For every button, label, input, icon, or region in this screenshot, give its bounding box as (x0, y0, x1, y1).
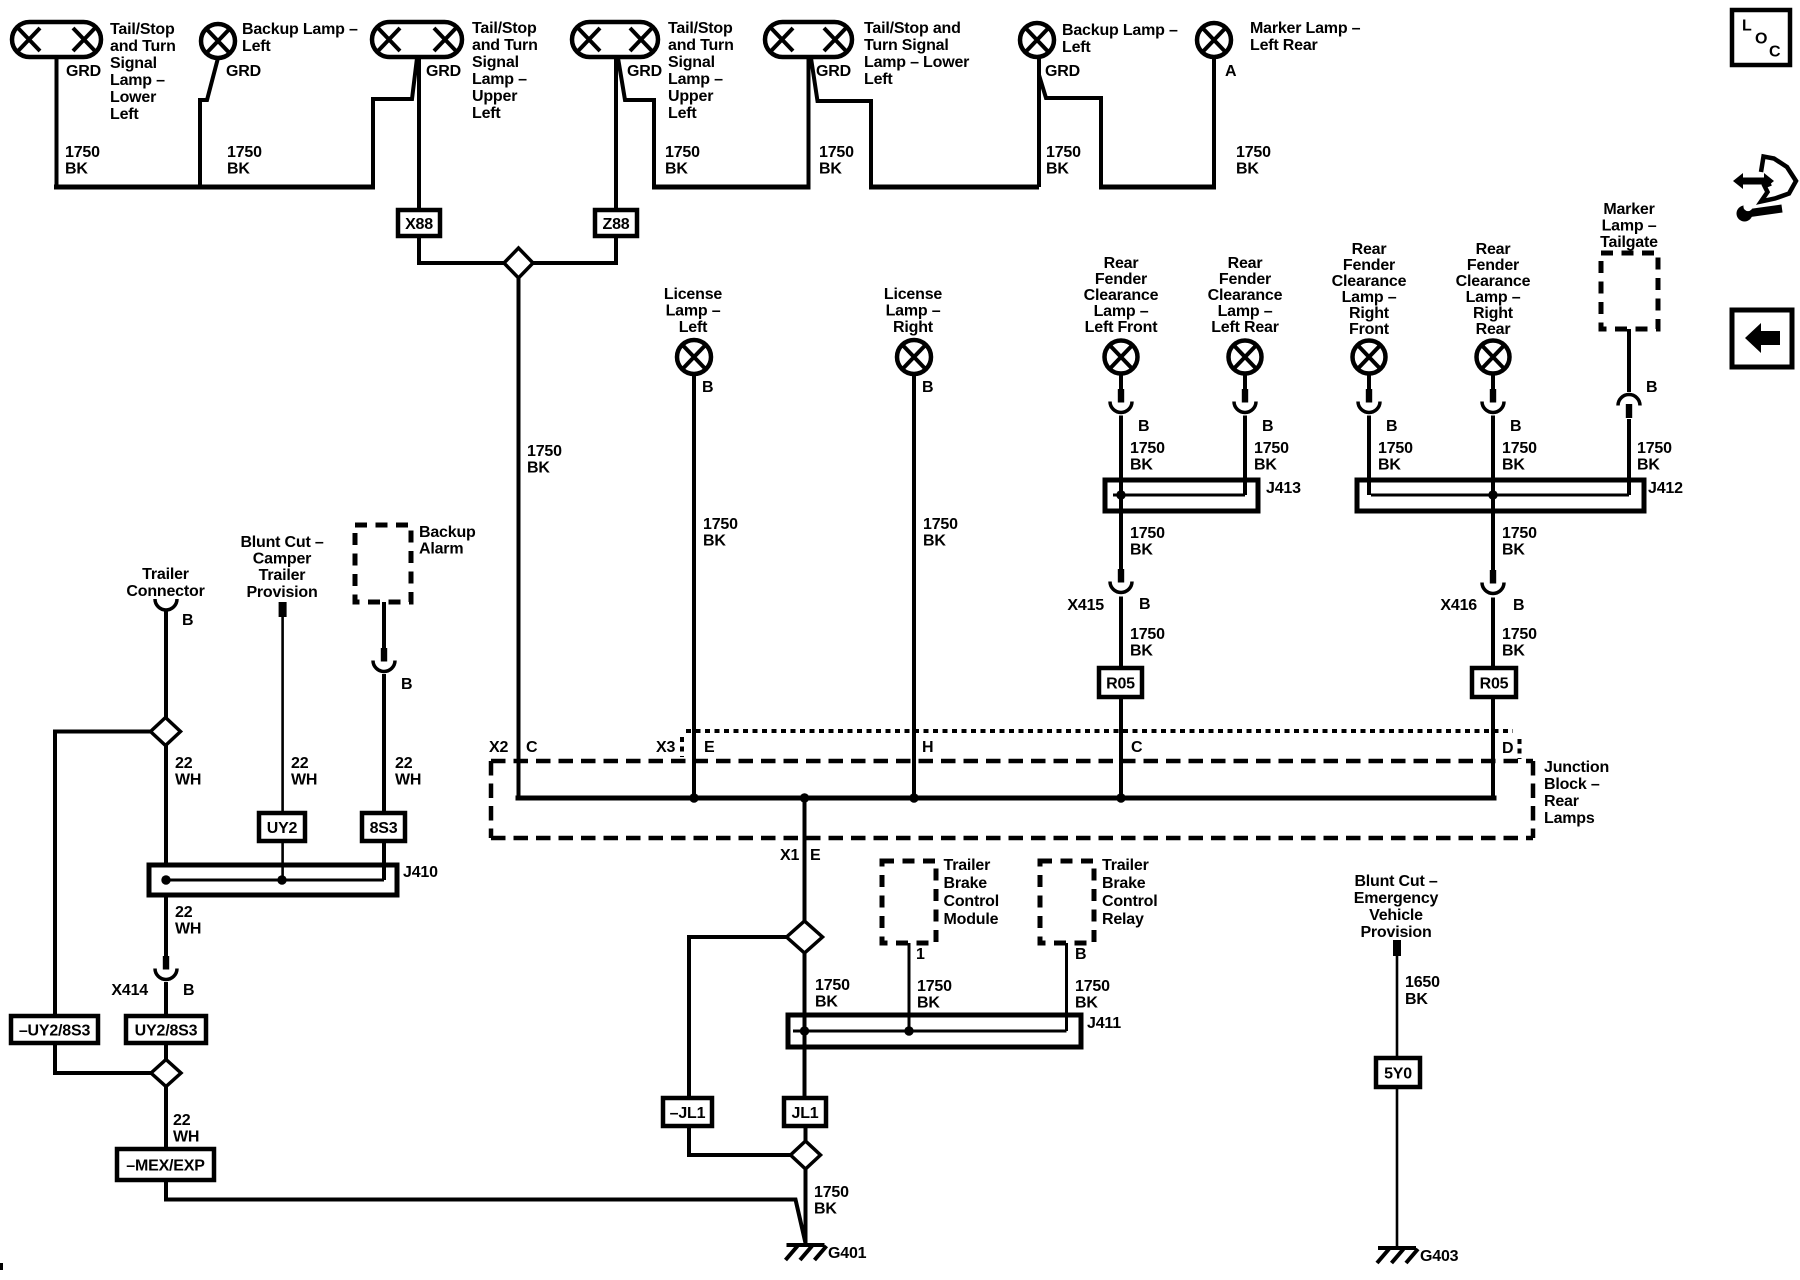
wire lamp3 GRD drop (373, 58, 417, 187)
svg-text:Lamp – Lower: Lamp – Lower (864, 54, 969, 71)
splice/option box 8S3 (362, 813, 405, 841)
svg-text:Rear: Rear (1352, 241, 1387, 258)
svg-text:BK: BK (923, 533, 946, 550)
wire diamond A to junction block X2-C (517, 278, 521, 798)
svg-text:and Turn: and Turn (110, 38, 176, 55)
wire junction block X1-E drop (803, 798, 807, 921)
wire clearance LR to J413 (1243, 416, 1247, 496)
svg-text:Trailer: Trailer (1102, 857, 1149, 874)
svg-text:G403: G403 (1420, 1248, 1459, 1265)
svg-text:WH: WH (175, 772, 201, 789)
wire ground run lamp6-lamp7 (1099, 185, 1216, 190)
svg-text:R05: R05 (1106, 676, 1135, 693)
svg-text:E: E (810, 847, 821, 864)
wire -JL1 to diamond C (689, 1126, 791, 1155)
svg-text:1: 1 (916, 946, 925, 963)
splice/option box Z88 (595, 210, 637, 236)
svg-text:1750: 1750 (1075, 978, 1110, 995)
svg-text:Rear: Rear (1228, 255, 1263, 272)
in-line connector backup alarm conn B (381, 648, 387, 662)
svg-text:A: A (1225, 63, 1237, 80)
svg-text:5Y0: 5Y0 (1384, 1066, 1412, 1083)
svg-text:License: License (664, 286, 722, 303)
svg-text:Tail/Stop and: Tail/Stop and (864, 20, 961, 37)
wire JL1 to diamond C (804, 1126, 808, 1141)
wire clearance RF to J412 (1367, 416, 1371, 496)
svg-text:Left Rear: Left Rear (1250, 37, 1318, 54)
svg-text:Left: Left (472, 105, 501, 122)
svg-text:Lamp –: Lamp – (1342, 289, 1397, 306)
wire lamp7 drop (1212, 56, 1216, 187)
svg-text:L: L (1742, 18, 1752, 35)
wire backup alarm conn to 8S3 (382, 674, 386, 813)
svg-text:Blunt Cut –: Blunt Cut – (240, 534, 323, 551)
svg-text:GRD: GRD (66, 63, 101, 80)
svg-text:Alarm: Alarm (419, 541, 463, 558)
svg-text:Tail/Stop: Tail/Stop (110, 21, 175, 38)
svg-text:Lamp –: Lamp – (472, 71, 527, 88)
icon double-arrow with wrench (1733, 173, 1774, 189)
svg-text:Upper: Upper (472, 88, 517, 105)
lamp Rear Fender Clearance Lamp x=1493 (circled-X) (1477, 341, 1510, 374)
svg-text:E: E (704, 739, 715, 756)
wire diamond C to G401 (804, 1169, 808, 1245)
svg-text:BK: BK (1502, 542, 1525, 559)
svg-text:Signal: Signal (110, 55, 157, 72)
wire lamp6 GRD branch (1039, 75, 1101, 187)
svg-text:Tail/Stop: Tail/Stop (472, 20, 537, 37)
splice/option box UY2 (259, 813, 305, 841)
ground G401 (787, 1243, 825, 1247)
wire Z88 to diamond (531, 236, 616, 263)
svg-text:Z88: Z88 (603, 216, 630, 233)
svg-text:Left: Left (1062, 39, 1091, 56)
svg-text:Left: Left (110, 106, 139, 123)
svg-text:Lamp –: Lamp – (886, 303, 941, 320)
svg-text:8S3: 8S3 (370, 820, 398, 837)
svg-text:Connector: Connector (126, 583, 204, 600)
svg-text:BK: BK (703, 533, 726, 550)
svg-text:Backup: Backup (419, 524, 476, 541)
svg-text:WH: WH (175, 921, 201, 938)
svg-text:Control: Control (944, 893, 999, 910)
svg-text:WH: WH (173, 1129, 199, 1146)
svg-text:Relay: Relay (1102, 911, 1144, 928)
svg-text:1750: 1750 (527, 443, 562, 460)
wire UY2/8S3 to diamond T2 (164, 1043, 168, 1060)
svg-text:Backup Lamp –: Backup Lamp – (242, 21, 358, 38)
svg-text:BK: BK (1378, 457, 1401, 474)
svg-text:Rear: Rear (1476, 241, 1511, 258)
svg-text:1750: 1750 (923, 516, 958, 533)
svg-text:B: B (1075, 946, 1086, 963)
wire diamond T1 to J410 (164, 746, 168, 867)
svg-text:B: B (1386, 418, 1397, 435)
junction block connector row dotted line X3 (686, 729, 1513, 733)
blunt cut stub (camper) (279, 602, 287, 617)
svg-text:Backup Lamp –: Backup Lamp – (1062, 22, 1178, 39)
wire tailgate lamp drop (1627, 329, 1631, 392)
svg-text:1750: 1750 (1254, 440, 1289, 457)
svg-text:Clearance: Clearance (1456, 273, 1531, 290)
svg-text:B: B (1139, 596, 1150, 613)
svg-text:1750: 1750 (1130, 626, 1165, 643)
svg-text:1750: 1750 (1130, 525, 1165, 542)
svg-text:BK: BK (1130, 457, 1153, 474)
svg-text:Turn Signal: Turn Signal (864, 37, 949, 54)
in-line connector X415 (1118, 569, 1124, 583)
svg-text:Left Rear: Left Rear (1211, 319, 1279, 336)
connector pin separator D (1518, 739, 1522, 759)
wire J410 to X414 (164, 895, 168, 956)
svg-text:GRD: GRD (1045, 63, 1080, 80)
svg-text:–JL1: –JL1 (670, 1105, 706, 1122)
svg-text:Lamp –: Lamp – (666, 303, 721, 320)
svg-text:Signal: Signal (668, 54, 715, 71)
svg-text:Trailer: Trailer (944, 857, 991, 874)
splice diamond splice diamond T1 (151, 718, 181, 746)
junction splice J410 (149, 865, 397, 895)
splice/option box -JL1 (663, 1098, 712, 1126)
svg-text:Marker: Marker (1603, 201, 1654, 218)
wire lamp2 GRD drop (200, 58, 218, 187)
wire tailgate conn to J412 (1627, 419, 1631, 495)
svg-text:G401: G401 (828, 1245, 867, 1262)
wire diamond T2 to -MEX/EXP (164, 1087, 168, 1150)
svg-text:Brake: Brake (944, 875, 988, 892)
lamp Marker Lamp - Left Rear (circled-X) (1197, 23, 1231, 57)
svg-text:B: B (1513, 597, 1524, 614)
svg-text:22: 22 (291, 755, 309, 772)
wire lamp5 center pin drop (807, 57, 811, 187)
in-line connector clearance lamp conn 1245 (1242, 389, 1248, 403)
in-line connector clearance lamp conn 1369 (1366, 389, 1372, 403)
svg-text:BK: BK (1236, 161, 1259, 178)
svg-text:1750: 1750 (1502, 626, 1537, 643)
svg-text:WH: WH (291, 772, 317, 789)
svg-text:Emergency: Emergency (1354, 890, 1439, 907)
in-line connector clearance lamp conn 1121 (1118, 389, 1124, 403)
svg-text:Lamp –: Lamp – (1466, 289, 1521, 306)
svg-text:Lamps: Lamps (1544, 810, 1595, 827)
svg-text:Tail/Stop: Tail/Stop (668, 20, 733, 37)
lamp License Lamp - Left (circled-X) (677, 340, 711, 374)
svg-text:B: B (182, 612, 193, 629)
splice/option box -MEX/EXP (117, 1149, 214, 1180)
svg-text:Control: Control (1102, 893, 1157, 910)
splice/option box -UY2/8S3 (11, 1016, 98, 1043)
svg-text:Left Front: Left Front (1085, 319, 1159, 336)
svg-text:Lamp –: Lamp – (1218, 303, 1273, 320)
lamp Rear Fender Clearance Lamp x=1369 (circled-X) (1353, 341, 1386, 374)
svg-text:B: B (183, 982, 194, 999)
lamp Tail/Stop and Turn Signal Lamp - Upper Left (2) (dual tail/stop, circled-X pair in stadium) (572, 22, 658, 57)
svg-text:X415: X415 (1067, 597, 1104, 614)
svg-text:1750: 1750 (65, 144, 100, 161)
svg-text:Fender: Fender (1467, 257, 1519, 274)
svg-text:BK: BK (814, 1201, 837, 1218)
svg-text:Provision: Provision (246, 584, 317, 601)
wire R05 right to junction block D (1491, 697, 1495, 801)
svg-text:Provision: Provision (1360, 924, 1431, 941)
svg-text:Lamp –: Lamp – (1094, 303, 1149, 320)
svg-text:BK: BK (1502, 643, 1525, 660)
wire lamp1 GRD drop (55, 57, 59, 187)
in-line connector X414 (163, 956, 169, 970)
svg-text:–UY2/8S3: –UY2/8S3 (19, 1023, 91, 1040)
wire clearance lamp 1245 pigtail (1243, 373, 1247, 389)
junction splice J412 (1357, 480, 1644, 511)
svg-text:BK: BK (665, 161, 688, 178)
splice diamond splice diamond B (787, 921, 823, 953)
svg-text:Fender: Fender (1095, 271, 1147, 288)
svg-text:B: B (1646, 379, 1657, 396)
splice/option box 5Y0 (1376, 1058, 1420, 1087)
junction splice J411 (788, 1015, 1081, 1047)
bus junction node x=1121 (1116, 793, 1125, 802)
wire ground run lamp4-lamp5 (652, 185, 811, 190)
svg-text:GRD: GRD (627, 63, 662, 80)
svg-text:BK: BK (917, 995, 940, 1012)
svg-text:Upper: Upper (668, 88, 713, 105)
svg-text:BK: BK (527, 460, 550, 477)
svg-text:Block –: Block – (1544, 776, 1600, 793)
svg-text:22: 22 (175, 904, 193, 921)
splice/option box JL1 (784, 1098, 826, 1126)
svg-text:J413: J413 (1266, 480, 1301, 497)
svg-text:Fender: Fender (1343, 257, 1395, 274)
svg-text:1750: 1750 (1130, 440, 1165, 457)
svg-text:Fender: Fender (1219, 271, 1271, 288)
svg-text:1750: 1750 (917, 978, 952, 995)
svg-text:Right: Right (893, 319, 934, 336)
wire R05 left to junction block C (1119, 697, 1123, 798)
svg-text:Lamp –: Lamp – (668, 71, 723, 88)
svg-text:Left: Left (668, 105, 697, 122)
svg-text:X416: X416 (1440, 597, 1477, 614)
svg-text:and Turn: and Turn (472, 37, 538, 54)
lamp Tail/Stop and Turn Signal Lamp - Lower Left (2) (dual tail/stop, circled-X pair in stadium) (765, 22, 852, 57)
svg-text:1650: 1650 (1405, 974, 1440, 991)
svg-text:BK: BK (227, 161, 250, 178)
svg-text:Rear: Rear (1544, 793, 1579, 810)
svg-text:1750: 1750 (814, 1184, 849, 1201)
svg-text:Left: Left (864, 71, 893, 88)
lamp Tail/Stop and Turn Signal Lamp - Upper Left (1) (dual tail/stop, circled-X pair in stadium) (372, 22, 462, 57)
connector Trailer Connector (155, 599, 177, 610)
svg-text:BK: BK (1254, 457, 1277, 474)
wire diamond T1 left branch to -UY2/8S3 (55, 732, 151, 1017)
svg-text:Trailer: Trailer (142, 566, 189, 583)
splice/option box R05 left (1099, 668, 1142, 697)
svg-text:1750: 1750 (819, 144, 854, 161)
splice/option box X88 (398, 210, 440, 236)
dashed component box Trailer Brake Control Module (882, 861, 936, 943)
wire X416 to R05 (1491, 598, 1495, 669)
wire -MEX/EXP run to G401 (166, 1180, 806, 1243)
svg-text:Rear: Rear (1476, 321, 1511, 338)
wire clearance lamp 1369 pigtail (1367, 373, 1371, 389)
svg-text:1750: 1750 (1637, 440, 1672, 457)
svg-text:–MEX/EXP: –MEX/EXP (126, 1158, 205, 1175)
svg-text:BK: BK (1075, 995, 1098, 1012)
svg-text:Rear: Rear (1104, 255, 1139, 272)
svg-text:1750: 1750 (665, 144, 700, 161)
svg-text:X88: X88 (405, 216, 433, 233)
wire camper provision to UY2 (281, 617, 284, 813)
in-line connector X416 (1490, 570, 1496, 584)
bus junction node x=694 (689, 793, 698, 802)
svg-text:Left: Left (242, 38, 271, 55)
dashed component box Marker Lamp - Tailgate (1601, 253, 1658, 329)
svg-text:WH: WH (395, 772, 421, 789)
svg-text:JL1: JL1 (792, 1105, 819, 1122)
lamp Rear Fender Clearance Lamp x=1121 (circled-X) (1105, 341, 1138, 374)
svg-text:1750: 1750 (1502, 440, 1537, 457)
svg-text:Clearance: Clearance (1208, 287, 1283, 304)
svg-text:B: B (401, 676, 412, 693)
dashed component box Backup Alarm (355, 525, 411, 602)
svg-text:Module: Module (944, 911, 999, 928)
lamp Rear Fender Clearance Lamp x=1245 (circled-X) (1229, 341, 1262, 374)
wire -UY2/8S3 to diamond T2 (55, 1043, 151, 1073)
svg-text:Right: Right (1349, 305, 1390, 322)
wire lamp5 GRD drop (811, 58, 871, 187)
junction block dashed border (491, 759, 1533, 764)
svg-text:BK: BK (819, 161, 842, 178)
svg-text:and Turn: and Turn (668, 37, 734, 54)
svg-text:X2: X2 (489, 739, 508, 756)
svg-text:X414: X414 (111, 982, 148, 999)
svg-text:1750: 1750 (227, 144, 262, 161)
wire 5Y0 to G403 (1396, 1087, 1399, 1248)
wire X415 to R05 (1119, 597, 1123, 669)
svg-text:B: B (1138, 418, 1149, 435)
bus junction node x=804.5 (800, 793, 809, 802)
lamp Backup Lamp - Left (circled-X) (201, 24, 235, 58)
svg-text:Left: Left (679, 319, 708, 336)
svg-text:BK: BK (1637, 457, 1660, 474)
svg-text:Blunt Cut –: Blunt Cut – (1354, 873, 1437, 890)
svg-text:Brake: Brake (1102, 875, 1146, 892)
svg-text:License: License (884, 286, 942, 303)
connector pin separator X3 (680, 737, 684, 757)
wire lamp3 to X88 (417, 57, 421, 210)
svg-text:J412: J412 (1648, 480, 1683, 497)
svg-text:Front: Front (1349, 321, 1390, 338)
wire diamond B left branch to -JL1 (689, 937, 787, 1098)
svg-text:C: C (1131, 739, 1143, 756)
svg-text:22: 22 (175, 755, 193, 772)
lamp Tail/Stop and Turn Signal Lamp - Lower Left (dual tail/stop, circled-X pair in stadium) (12, 22, 101, 57)
svg-text:Trailer: Trailer (259, 567, 306, 584)
svg-text:B: B (1262, 418, 1273, 435)
splice/option box UY2/8S3 (126, 1016, 206, 1043)
in-line connector clearance lamp conn 1493 (1490, 389, 1496, 403)
svg-text:BK: BK (815, 994, 838, 1011)
icon LOC box (1732, 10, 1790, 65)
wire ground run lamp5-lamp6 (869, 185, 1039, 190)
svg-text:Clearance: Clearance (1332, 273, 1407, 290)
svg-text:X3: X3 (656, 739, 675, 756)
svg-text:C: C (526, 739, 538, 756)
wire trailer connector to diamond T1 (164, 611, 168, 718)
svg-text:1750: 1750 (703, 516, 738, 533)
wire clearance RR to J412/X416 (1491, 416, 1495, 571)
svg-text:BK: BK (1130, 643, 1153, 660)
wire emergency provision to 5Y0 (1396, 956, 1399, 1058)
svg-text:1750: 1750 (1236, 144, 1271, 161)
wire clearance LF to J413/X415 (1119, 416, 1123, 570)
svg-text:BK: BK (1130, 542, 1153, 559)
svg-text:BK: BK (1046, 161, 1069, 178)
svg-text:UY2/8S3: UY2/8S3 (135, 1023, 198, 1040)
blunt cut stub (emergency) (1393, 940, 1401, 956)
wire clearance lamp 1493 pigtail (1491, 373, 1495, 389)
lamp License Lamp - Right (circled-X) (897, 340, 931, 374)
svg-text:GRD: GRD (816, 63, 851, 80)
wire ground run lamp1-lamp3 (54, 185, 375, 190)
svg-text:Vehicle: Vehicle (1369, 907, 1423, 924)
page edge mark (0, 1263, 3, 1270)
dashed component box Trailer Brake Control Relay (1040, 861, 1094, 943)
svg-text:BK: BK (1405, 991, 1428, 1008)
in-line connector tailgate lamp conn B (1618, 395, 1640, 406)
svg-text:Junction: Junction (1544, 759, 1609, 776)
wire diamond B down through J411 to JL1 (803, 953, 807, 1098)
svg-text:O: O (1755, 31, 1767, 48)
wire license left to junction block (692, 374, 696, 798)
wire X414 to UY2/8S3 (164, 982, 168, 1016)
svg-text:J411: J411 (1087, 1015, 1121, 1032)
wire license right to junction block (912, 374, 916, 798)
svg-text:1750: 1750 (815, 977, 850, 994)
svg-text:Signal: Signal (472, 54, 519, 71)
svg-text:B: B (702, 379, 713, 396)
svg-text:Lamp –: Lamp – (110, 72, 165, 89)
svg-text:X1: X1 (780, 847, 799, 864)
svg-text:1750: 1750 (1502, 525, 1537, 542)
wire clearance lamp 1121 pigtail (1119, 373, 1123, 389)
svg-text:B: B (922, 379, 933, 396)
wire UY2 to J410 (281, 841, 284, 880)
icon back-arrow box (1732, 310, 1792, 367)
svg-text:Tailgate: Tailgate (1600, 234, 1658, 251)
wire lamp6 drop (1037, 56, 1041, 187)
wire X88 to diamond (419, 236, 506, 263)
svg-text:B: B (1510, 418, 1521, 435)
svg-text:H: H (922, 739, 933, 756)
svg-text:GRD: GRD (226, 63, 261, 80)
wire backup alarm drop (382, 602, 386, 648)
svg-text:22: 22 (395, 755, 413, 772)
svg-text:1750: 1750 (1046, 144, 1081, 161)
wire lamp4 to Z88 (614, 57, 618, 210)
svg-text:GRD: GRD (426, 63, 461, 80)
splice diamond splice diamond T2 (151, 1060, 181, 1087)
splice/option box R05 right (1472, 668, 1516, 697)
svg-text:UY2: UY2 (267, 820, 298, 837)
svg-text:Marker Lamp –: Marker Lamp – (1250, 20, 1361, 37)
svg-text:BK: BK (65, 161, 88, 178)
lamp Backup Lamp - Left (2) (circled-X) (1020, 23, 1054, 57)
svg-text:Right: Right (1473, 305, 1514, 322)
wire module pin 1 to J411 (908, 943, 911, 1031)
svg-text:J410: J410 (403, 864, 438, 881)
wire 8S3 into J410 corner (382, 841, 386, 880)
splice diamond splice diamond C (791, 1141, 821, 1169)
bus junction node x=914 (909, 793, 918, 802)
